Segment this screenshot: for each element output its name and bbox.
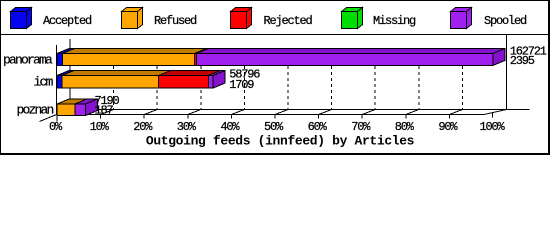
bar icm right end cap [213,71,225,89]
dashed gridline 50% (back plane) [287,48,289,110]
tick 20% [143,115,145,119]
tick 0% [56,115,58,122]
legend cube Accepted (blue) [11,8,32,29]
svg-text:100%: 100% [479,120,505,134]
legend cube Rejected (red) [231,8,252,29]
axis left foot diagonal [40,115,57,122]
bar panorama blue front segment [57,54,63,66]
tick jog 80% [406,110,419,115]
bar poznan purple front segment [75,104,86,116]
svg-text:Missing: Missing [373,14,416,28]
svg-text:60%: 60% [308,120,328,134]
dashed gridline 20% (back plane) [156,48,158,110]
bar icm orange top face [62,71,171,76]
svg-text:icm: icm [34,75,54,90]
axis corner diagonal right [484,110,507,115]
tick jog 60% [319,110,332,115]
bar poznan purple top face [75,99,98,104]
back y-axis [69,39,71,110]
bar panorama right end cap [493,49,505,66]
legend cube Missing (green) [342,8,363,29]
svg-text:panorama: panorama [3,53,53,68]
svg-text:10%: 10% [90,120,110,134]
tick 50% [274,115,276,119]
bar poznan orange top face [57,99,87,104]
dashed gridline 30% (back plane) [200,48,202,110]
bar panorama blue top face [57,49,75,54]
svg-text:187: 187 [95,104,114,118]
svg-text:1709: 1709 [229,78,254,92]
tick 70% [361,115,363,119]
outer border bottom thick edge [0,153,550,155]
svg-text:Rejected: Rejected [264,14,313,28]
svg-text:20%: 20% [133,120,153,134]
svg-text:40%: 40% [220,120,240,134]
bar panorama purple top face [196,49,505,54]
tick 80% [405,115,407,119]
svg-text:poznan: poznan [17,103,54,118]
tick 30% [187,115,189,119]
bar panorama orange front segment [63,54,195,66]
svg-text:Outgoing feeds (innfeed) by Ar: Outgoing feeds (innfeed) by Articles [146,133,415,148]
bar icm orange front segment [62,76,159,89]
tick jog 0% [57,110,70,115]
svg-text:70%: 70% [351,120,371,134]
svg-text:Accepted: Accepted [43,14,92,28]
svg-text:0%: 0% [49,120,63,134]
bar poznan orange front segment [57,104,75,116]
bar panorama red top face [195,49,209,54]
dashed gridline 80% (back plane) [418,48,420,110]
tick jog 40% [231,110,244,115]
bar icm blue top face [57,71,74,76]
svg-text:2395: 2395 [510,54,535,68]
legend cube Spooled (purple) [451,8,472,29]
tick jog 90% [449,110,462,115]
dashed gridline 10% (back plane) [113,48,115,110]
outer border frame [1,1,550,155]
legend separator line [0,34,550,36]
dashed gridline 40% (back plane) [243,48,245,110]
dashed gridline 60% (back plane) [331,48,333,110]
tick jog 50% [275,110,288,115]
back x-axis with right overhang [57,109,530,111]
bar icm red front segment [159,76,209,89]
svg-text:Refused: Refused [154,14,197,28]
front x-axis [57,114,485,116]
tick jog 20% [144,110,157,115]
outer border right thick edge [548,0,550,155]
tick 60% [318,115,320,119]
dashed gridline 90% (back plane) [461,48,463,110]
back-right vertical axis [506,35,508,110]
legend cube Refused (orange) [122,8,143,29]
tick 40% [230,115,232,119]
svg-text:80%: 80% [395,120,415,134]
tick 90% [448,115,450,119]
tick jog 30% [188,110,201,115]
tick jog 10% [101,110,114,115]
svg-text:50%: 50% [264,120,284,134]
svg-text:30%: 30% [177,120,197,134]
bar icm purple top face [208,71,225,76]
tick jog 70% [362,110,375,115]
bar icm blue front segment [57,76,62,89]
bar panorama orange top face [63,49,207,54]
bar panorama purple front segment [196,54,493,66]
bar icm purple front segment [208,76,213,89]
svg-text:90%: 90% [438,120,458,134]
front y-axis [56,45,58,115]
bar icm red top face [159,71,221,76]
svg-text:Spooled: Spooled [484,14,527,28]
bar poznan right end cap [85,99,97,116]
dashed gridline 70% (back plane) [374,48,376,110]
bar panorama red front segment [195,54,197,66]
tick 10% [100,115,102,119]
tick 100% [492,112,494,118]
